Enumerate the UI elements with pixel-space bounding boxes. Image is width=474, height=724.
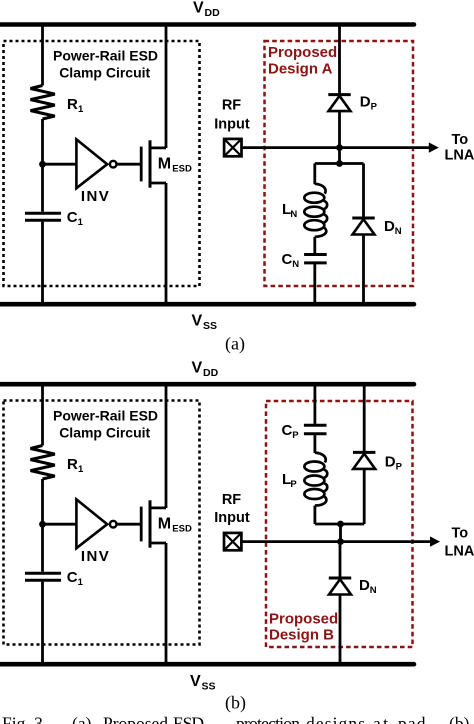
svg-text:C: C: [67, 569, 78, 586]
svg-text:ESD: ESD: [172, 164, 192, 175]
svg-text:1: 1: [78, 577, 84, 588]
svg-text:DD: DD: [205, 7, 221, 19]
svg-text:Clamp Circuit: Clamp Circuit: [59, 425, 150, 441]
svg-text:INV: INV: [81, 548, 110, 565]
svg-text:SS: SS: [203, 320, 217, 332]
svg-text:To: To: [452, 526, 469, 542]
svg-text:N: N: [395, 226, 402, 237]
svg-text:Design A: Design A: [268, 61, 333, 78]
svg-text:M: M: [158, 516, 171, 533]
svg-text:D: D: [360, 94, 371, 111]
svg-text:V: V: [192, 313, 203, 330]
svg-text:(b): (b): [225, 693, 246, 714]
svg-text:V: V: [190, 673, 201, 690]
svg-text:R: R: [67, 96, 78, 113]
svg-text:D: D: [359, 577, 370, 594]
svg-text:P: P: [290, 479, 297, 490]
svg-text:C: C: [282, 422, 293, 439]
svg-text:(b): (b): [449, 714, 470, 724]
svg-text:Clamp Circuit: Clamp Circuit: [59, 65, 150, 81]
svg-text:ESD: ESD: [172, 524, 192, 535]
svg-text:Fig. 3.: Fig. 3.: [2, 714, 47, 724]
svg-text:P: P: [371, 102, 378, 113]
svg-text:C: C: [282, 251, 293, 268]
svg-text:1: 1: [78, 217, 84, 228]
svg-text:P: P: [292, 430, 299, 441]
svg-text:D: D: [384, 218, 395, 235]
svg-text:C: C: [67, 209, 78, 226]
svg-text:Proposed: Proposed: [268, 44, 337, 61]
svg-text:protection: protection: [236, 714, 300, 724]
svg-text:Input: Input: [214, 117, 250, 133]
svg-text:V: V: [192, 360, 203, 377]
svg-text:P: P: [396, 462, 403, 473]
svg-text:M: M: [158, 156, 171, 173]
svg-text:Input: Input: [214, 510, 250, 526]
svg-text:To: To: [452, 132, 469, 148]
svg-text:Proposed: Proposed: [103, 714, 168, 724]
svg-text:Proposed: Proposed: [269, 611, 338, 628]
svg-text:Power-Rail ESD: Power-Rail ESD: [53, 407, 158, 423]
svg-text:DD: DD: [203, 367, 219, 379]
svg-text:D: D: [385, 454, 396, 471]
svg-text:N: N: [292, 259, 299, 270]
svg-text:V: V: [193, 0, 204, 16]
svg-text:INV: INV: [81, 188, 110, 205]
svg-text:RF: RF: [222, 492, 241, 508]
svg-text:Design B: Design B: [269, 627, 334, 644]
svg-text:pad.: pad.: [398, 714, 431, 724]
svg-text:(a): (a): [72, 714, 92, 724]
svg-text:N: N: [370, 585, 377, 596]
svg-text:1: 1: [78, 464, 84, 475]
svg-text:Power-Rail ESD: Power-Rail ESD: [53, 47, 158, 63]
svg-text:ESD: ESD: [173, 714, 204, 724]
svg-text:R: R: [67, 456, 78, 473]
svg-text:at: at: [373, 714, 388, 724]
svg-text:LNA: LNA: [445, 148, 474, 164]
svg-text:RF: RF: [222, 98, 241, 114]
svg-text:N: N: [290, 209, 297, 220]
svg-text:1: 1: [78, 104, 84, 115]
svg-text:SS: SS: [202, 680, 216, 692]
svg-text:(a): (a): [225, 334, 245, 355]
svg-text:designs: designs: [306, 714, 365, 724]
svg-text:LNA: LNA: [445, 544, 474, 560]
